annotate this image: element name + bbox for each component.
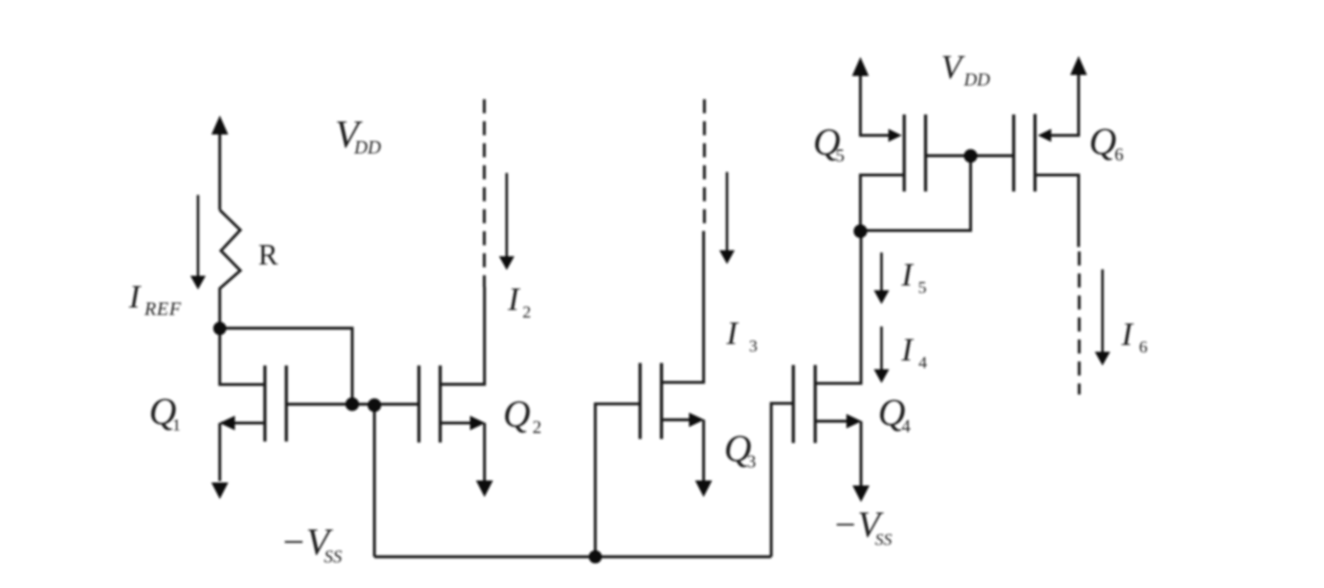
svg-text:R: R [258,240,278,272]
wire gate riser node2 to bus [373,405,376,557]
current arrow I4 line [880,327,883,371]
transistor Q5 channel bar [903,115,906,192]
wire Q4 gate riser [771,403,792,556]
arrowhead Q1 source left [220,416,235,430]
transistor Q4 source wire [816,421,861,486]
transistor Q6 source wire to VDD [1050,74,1079,135]
transistor Q5 gate bar [924,115,927,192]
wire dashed I2 feed [483,99,486,287]
svg-text:DD: DD [963,70,990,90]
svg-text:I: I [507,282,521,318]
arrowhead VDD up above Q5 [852,57,869,76]
node bus junction dot [589,550,602,563]
svg-text:SS: SS [875,530,893,549]
transistor Q6 drain wire [1036,175,1078,247]
node drain45 junction dot [854,224,868,238]
arrowhead Q3 to VSS down [695,481,712,498]
arrowhead Q2 source right [470,416,485,430]
transistor Q5 drain wire [860,175,903,231]
svg-text:SS: SS [324,547,342,567]
transistor Q4 drain wire [816,231,861,383]
wire gate bus Q1-Q2 [288,403,419,406]
current arrow I6 line [1101,269,1104,352]
svg-text:Q: Q [503,394,530,436]
transistor Q3 channel bar [660,363,663,439]
wire node A to gate column [220,328,352,404]
svg-text:2: 2 [533,417,542,437]
current arrow I2 line [505,173,508,257]
transistor Q3 source wire [663,420,704,481]
current arrow I5 line [880,253,883,292]
arrowhead IREF down [190,276,205,290]
resistor R1 zigzag [220,210,241,322]
node gate56 junction dot [964,149,978,163]
svg-text:3: 3 [749,337,758,356]
svg-text:Q: Q [1089,121,1116,163]
svg-text:2: 2 [523,303,532,322]
arrowhead Q5 source right [888,129,901,142]
svg-text:6: 6 [1139,338,1148,357]
svg-text:5: 5 [836,145,845,165]
node gate2 junction dot [368,398,382,412]
transistor Q1 channel bar [263,366,266,442]
transistor Q4 gate bar [792,365,795,443]
svg-text:I: I [128,280,142,316]
transistor Q2 drain wire [441,287,484,384]
wire VDD rail arrow above R [218,132,221,210]
svg-text:I: I [1121,317,1135,353]
svg-text:I: I [901,333,915,369]
arrowhead Q6 source left [1038,129,1051,142]
wire Q3 gate riser [595,404,639,557]
wire Q5 diode connection [861,156,971,231]
arrowhead Q2 to VSS down [476,481,493,498]
wire dashed I3 feed [703,99,706,228]
transistor Q3 gate bar [639,363,642,439]
transistor Q4 channel bar [814,365,817,443]
current arrow IREF line [197,195,200,276]
arrowhead Q1 to VSS down [211,483,228,500]
node gate1 junction dot [345,397,359,411]
arrowhead I6 down [1095,352,1110,366]
arrowhead VDD up above R [211,116,228,135]
transistor Q6 channel bar [1033,114,1036,192]
svg-text:5: 5 [918,278,927,297]
transistor Q5 source wire from VDD [860,74,889,135]
wire dashed I6 load [1078,252,1081,395]
arrowhead VDD up above Q6 [1070,56,1087,75]
wire gate bottom bus [374,555,771,558]
wire gate bus Q5-Q6 [927,154,1013,157]
transistor Q2 source wire [441,423,484,481]
arrowhead I5 down [874,290,889,304]
svg-text:I: I [901,258,915,294]
svg-text:REF: REF [144,299,182,320]
arrowhead I4 down [874,369,889,383]
node A junction dot [213,322,226,335]
arrowhead I2 down [499,256,514,270]
transistor Q1 source wire [220,423,264,481]
arrowhead Q3 source right [689,413,704,427]
arrowhead Q4 to VSS down [853,486,870,503]
transistor Q1 drain wire [220,328,264,384]
transistor Q2 gate bar [417,366,420,443]
transistor Q3 drain wire [663,231,704,382]
svg-text:4: 4 [919,353,928,372]
svg-text:1: 1 [172,416,181,435]
svg-text:4: 4 [902,416,911,436]
svg-text:6: 6 [1115,145,1124,165]
arrowhead I3 down [719,250,734,264]
transistor Q2 channel bar [439,366,442,443]
svg-text:3: 3 [747,452,756,472]
transistor Q6 gate bar [1012,115,1015,192]
svg-text:I: I [726,316,740,352]
arrowhead Q4 source right [846,414,861,428]
transistor Q1 gate bar [285,366,288,442]
svg-text:DD: DD [353,139,381,159]
current arrow I3 line [726,172,729,251]
